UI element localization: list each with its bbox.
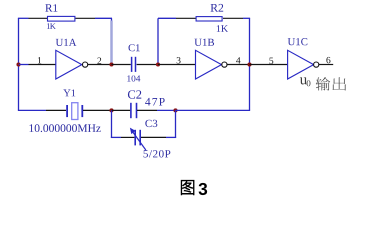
wire C3 left pin [121, 136, 134, 138]
label 10.000000MHz value of Y1 [30, 124, 101, 132]
pin 6 wire of U1C output [319, 64, 333, 66]
wire R1 top rail blue left [18, 17, 29, 19]
wire R1 rail blue right [95, 17, 112, 19]
label chinese tu (figure) caption [181, 180, 194, 194]
wire R2 left pin [176, 17, 196, 19]
wire vertical x250 from R2 rail down to C2 line [249, 18, 251, 110]
pin number 6 [326, 57, 330, 63]
wire C2 to node B [137, 109, 157, 111]
crystal Y1 [67, 103, 82, 120]
label U1B [194, 39, 214, 46]
wire node 2 to C1 [112, 64, 131, 66]
wire C3 loop left vertical [111, 110, 113, 138]
capacitor C3 variable trimmer [130, 128, 146, 150]
U1B output bubble [222, 62, 227, 67]
pin number 2 [97, 58, 101, 64]
label 1K of R1 [47, 23, 56, 29]
wire R2 right pin [223, 17, 243, 19]
node B junction dot [173, 108, 177, 112]
op-amp inverter U1A [56, 50, 82, 79]
label 104 value of C1 [127, 75, 140, 81]
wire node A to C2 [112, 109, 131, 111]
pin 1 wire of U1A [29, 64, 57, 66]
label 5/20P value of C3 [144, 150, 171, 157]
wire C1 to node 3 [137, 64, 158, 66]
op-amp inverter U1B [196, 50, 222, 79]
wire R2 rail blue right [243, 17, 250, 19]
wire R1 right pin [76, 17, 96, 19]
label C2 [128, 90, 141, 98]
pin number 5 [269, 58, 273, 64]
node 4 junction dot [247, 62, 251, 66]
label U1C [288, 38, 308, 45]
capacitor C1 [132, 57, 136, 72]
label u0 output [300, 77, 311, 86]
wire left vertical rail [18, 18, 20, 110]
label chinese shu (output) [316, 77, 330, 90]
label 3 of caption [199, 183, 208, 195]
label C3 [145, 120, 157, 127]
label U1A [56, 39, 77, 46]
wire R2 top rail blue left [158, 17, 176, 19]
pin 2 wire of U1A [88, 64, 112, 66]
pin 4 wire of U1B [227, 64, 250, 66]
label R1 [45, 4, 57, 11]
pin 3 wire of U1B [158, 64, 196, 66]
wire Y1 line blue left [18, 109, 46, 111]
op-amp inverter U1C [288, 50, 314, 79]
capacitor C2 [131, 103, 137, 118]
wire Y1 right pin [83, 109, 112, 111]
U1A output bubble [83, 62, 88, 67]
label R2 [211, 4, 224, 12]
pin 5 wire of U1C [250, 64, 288, 66]
wire R1 left pin [29, 17, 48, 19]
wire C3 loop bottom left blue [111, 136, 121, 138]
wire node B to right vertical [176, 109, 251, 111]
label chinese chu (output) [332, 77, 346, 90]
wire vertical from R2 rail down to node 3 [157, 18, 159, 64]
label C1 [129, 44, 140, 51]
resistor R2 [196, 17, 222, 21]
node 1 junction dot [16, 62, 20, 66]
wire node 1 to U1A input blue [19, 64, 29, 66]
node 3 junction dot [156, 62, 160, 66]
wire vertical from R1 rail down to node 2 (light highlighted net) [111, 18, 113, 21]
node A junction dot [109, 108, 113, 112]
U1C output bubble [314, 62, 319, 67]
wire C3 loop bottom right blue [166, 136, 176, 138]
wire C3 right pin [141, 136, 166, 138]
pin number 4 [236, 57, 240, 63]
wire Y1 left pin [46, 109, 66, 111]
label 47P value of C2 [145, 98, 165, 106]
node 2 junction dot [109, 62, 113, 66]
label 1K of R2 [217, 25, 228, 32]
pin number 3 [177, 57, 181, 63]
pin number 1 [38, 57, 41, 63]
wire C3 loop right vertical [175, 110, 177, 138]
label Y1 [63, 90, 75, 97]
resistor R1 [48, 16, 75, 21]
